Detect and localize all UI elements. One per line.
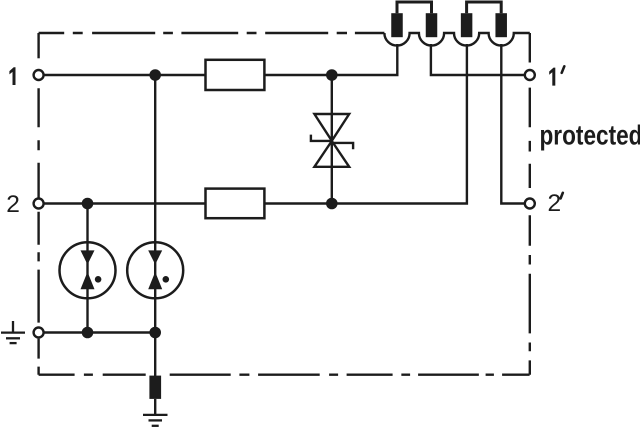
svg-text:protected: protected [540, 120, 640, 151]
svg-text:2: 2 [6, 191, 20, 218]
svg-text:2: 2 [548, 190, 562, 217]
